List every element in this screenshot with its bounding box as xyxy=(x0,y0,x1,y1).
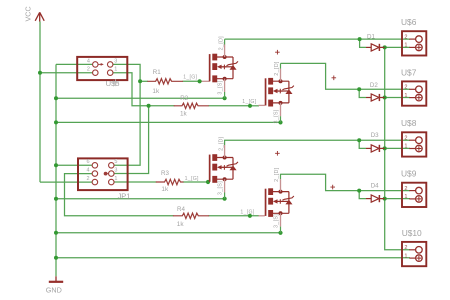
svg-text:1_[G]: 1_[G] xyxy=(240,210,254,216)
node Q2 gate xyxy=(248,104,252,108)
resistor R1 xyxy=(147,69,197,95)
node GND Q2S xyxy=(54,120,58,124)
wire Q3 drain to row3 xyxy=(225,139,410,141)
svg-text:D1: D1 xyxy=(367,33,375,40)
connector U$8 xyxy=(401,118,426,156)
node GND Q3S xyxy=(54,197,58,201)
wire row2 drop to D2 xyxy=(359,89,366,97)
wire Q1 drain to row1 xyxy=(225,38,410,40)
svg-text:R2: R2 xyxy=(180,95,188,102)
pin 3 marker arrow xyxy=(104,172,108,176)
node R1 tee xyxy=(138,79,142,83)
wire VCC vertical xyxy=(39,22,41,183)
transistor Q1 xyxy=(209,36,238,98)
wire Q1 gate pin xyxy=(200,80,202,82)
connector U$7 xyxy=(401,68,426,106)
wire GND to U$5 pin4 xyxy=(56,63,92,65)
node bus D4 xyxy=(383,197,387,201)
origin cross D2 area xyxy=(332,76,337,81)
supply VCC xyxy=(24,6,45,21)
svg-text:U$9: U$9 xyxy=(401,169,417,179)
svg-text:U$5: U$5 xyxy=(106,79,120,88)
wire Q3 source to GND xyxy=(56,198,225,200)
svg-text:3_[S]: 3_[S] xyxy=(274,109,280,123)
connector U$5 xyxy=(77,57,127,88)
origin cross Q4 drain xyxy=(275,151,280,156)
connector JP1 xyxy=(78,158,130,200)
svg-text:2: 2 xyxy=(87,176,90,182)
node Q4 gate xyxy=(248,214,252,218)
node row1 tee xyxy=(358,37,362,41)
svg-text:1k: 1k xyxy=(161,186,169,193)
svg-text:U$8: U$8 xyxy=(401,118,417,128)
svg-text:3_[S]: 3_[S] xyxy=(218,80,224,94)
wire R1 to Q1 gate xyxy=(140,80,148,82)
svg-text:D3: D3 xyxy=(371,132,379,139)
diode D4 xyxy=(366,183,385,203)
wire R3 to Q3 gate xyxy=(183,181,208,183)
svg-text:R1: R1 xyxy=(153,69,161,76)
connector U$6 xyxy=(401,17,426,55)
wire D3 to bus xyxy=(382,147,411,149)
svg-text:3_[S]: 3_[S] xyxy=(218,181,224,195)
svg-text:2_[D]: 2_[D] xyxy=(274,167,280,182)
svg-text:1k: 1k xyxy=(177,221,185,228)
diode D3 xyxy=(366,132,385,152)
svg-text:1_[G]: 1_[G] xyxy=(183,75,197,81)
wire GND to JP1 pin6 xyxy=(56,164,92,166)
svg-text:D4: D4 xyxy=(371,183,379,190)
wire row4 drop to D4 xyxy=(359,191,366,199)
node row2 tee xyxy=(357,87,361,91)
wire U$5 pin1 to R2 net xyxy=(113,73,149,106)
node row4 tee xyxy=(357,189,361,193)
wire D1 to bus xyxy=(382,46,411,48)
svg-text:6: 6 xyxy=(87,159,90,165)
svg-text:JP1: JP1 xyxy=(118,192,131,201)
node GND Q1S xyxy=(54,96,58,100)
svg-text:VCC: VCC xyxy=(24,6,33,21)
svg-text:4: 4 xyxy=(87,58,90,64)
wire diode cathode bus xyxy=(385,47,410,249)
svg-text:5: 5 xyxy=(114,159,117,165)
origin cross D4 area xyxy=(330,185,335,190)
wire R2 to Q2 gate xyxy=(209,105,251,107)
svg-text:2_[D]: 2_[D] xyxy=(218,136,224,151)
wire Q1 source to GND xyxy=(56,97,225,99)
svg-text:R3: R3 xyxy=(161,170,169,177)
resistor R2 xyxy=(174,95,257,118)
transistor Q3 xyxy=(209,136,238,198)
wire VCC to JP1 pin2 xyxy=(40,181,92,183)
ground xyxy=(46,276,63,294)
wire Q4 source to GND xyxy=(56,232,281,234)
wire row1 drop to D1 xyxy=(360,39,366,47)
resistor R4 xyxy=(173,206,255,228)
svg-text:1_[G]: 1_[G] xyxy=(185,176,199,182)
svg-text:2: 2 xyxy=(87,67,90,73)
svg-text:3: 3 xyxy=(114,168,117,174)
wire GND bus vertical xyxy=(55,64,57,276)
wire R2 input xyxy=(149,105,175,107)
transistor Q2 xyxy=(265,61,294,123)
svg-text:D2: D2 xyxy=(370,82,378,89)
node GND Q4S xyxy=(54,231,58,235)
svg-text:1: 1 xyxy=(114,67,117,73)
wire row3 drop to D3 xyxy=(359,140,366,148)
node Q3 gate xyxy=(206,180,210,184)
node R2 tee xyxy=(147,104,151,108)
node Q1 gate xyxy=(198,79,202,83)
svg-text:U$10: U$10 xyxy=(402,228,422,238)
svg-text:U$7: U$7 xyxy=(401,68,417,78)
wire R4 to Q4 gate xyxy=(209,215,260,217)
node row3 tee xyxy=(357,138,361,142)
transistor Q4 xyxy=(265,167,294,232)
svg-text:1k: 1k xyxy=(152,88,160,95)
svg-text:3_[S]: 3_[S] xyxy=(274,214,280,228)
wire Q2 drain route xyxy=(281,63,411,89)
node GND JP1.6 xyxy=(54,163,58,167)
wire VCC to U$5 pin2 xyxy=(40,72,92,74)
svg-text:3: 3 xyxy=(114,58,117,64)
diode D2 xyxy=(366,82,385,101)
connector U$10 xyxy=(402,228,427,266)
pin 4 marker arrow xyxy=(98,63,102,65)
svg-text:2_[D]: 2_[D] xyxy=(274,61,280,76)
node bus D1 xyxy=(383,45,387,49)
svg-text:1: 1 xyxy=(114,176,117,182)
wire JP1 pin3 riser xyxy=(114,106,148,174)
wire GND to U$10 pin1 xyxy=(56,257,410,259)
wire JP1 pin1 to R3 xyxy=(114,181,156,183)
node Q2 source xyxy=(278,120,282,124)
wire U$5 pin3 to R1 net xyxy=(113,64,140,165)
svg-text:4: 4 xyxy=(87,168,90,174)
svg-text:1k: 1k xyxy=(180,111,188,118)
node Q4 source xyxy=(278,231,282,235)
wire D4 to bus xyxy=(382,198,411,200)
svg-text:1_[G]: 1_[G] xyxy=(242,99,256,105)
svg-text:GND: GND xyxy=(46,286,62,295)
wire Q2 source to GND xyxy=(56,121,281,123)
wire D2 to bus xyxy=(382,97,411,99)
wire JP1 pin4 down xyxy=(65,174,174,216)
node Q1 source xyxy=(223,96,227,100)
connector U$9 xyxy=(401,169,426,207)
svg-text:R4: R4 xyxy=(177,206,185,213)
node bus D3 xyxy=(383,146,387,150)
origin cross Q2 drain xyxy=(275,50,280,55)
node GND U$10 xyxy=(54,256,58,260)
svg-text:2_[D]: 2_[D] xyxy=(218,36,224,51)
node bus D2 xyxy=(383,96,387,100)
node VCC tee xyxy=(38,71,42,75)
node Q3 source xyxy=(223,197,227,201)
svg-text:U$6: U$6 xyxy=(401,17,417,27)
wire Q4 drain route xyxy=(281,174,411,190)
resistor R3 xyxy=(156,170,199,193)
diode D1 xyxy=(366,33,385,51)
